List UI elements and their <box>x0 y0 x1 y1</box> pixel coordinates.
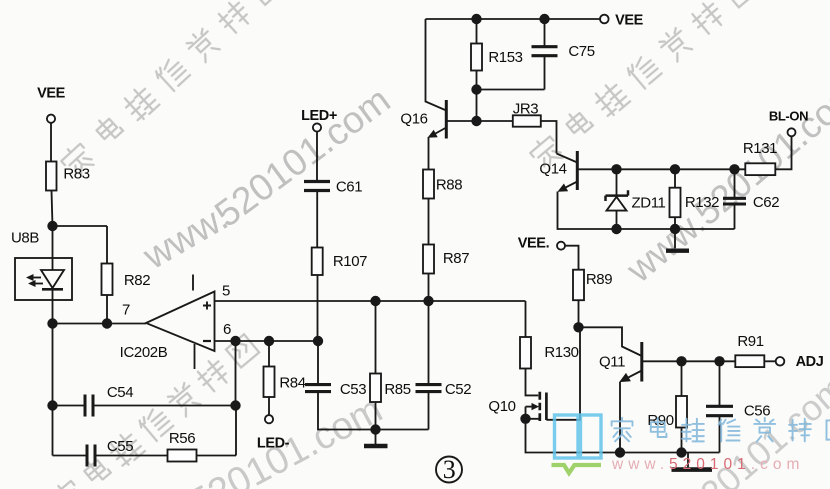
svg-text:Q14: Q14 <box>539 161 566 178</box>
svg-text:C62: C62 <box>753 194 779 211</box>
svg-text:C75: C75 <box>568 43 594 60</box>
svg-text:C55: C55 <box>107 438 133 455</box>
svg-text:R131: R131 <box>743 140 777 157</box>
svg-text:R91: R91 <box>737 333 763 350</box>
svg-text:BL-ON: BL-ON <box>769 109 808 124</box>
svg-text:R89: R89 <box>586 271 612 288</box>
svg-text:R83: R83 <box>63 166 89 183</box>
svg-text:VEE: VEE <box>615 13 644 29</box>
svg-text:R85: R85 <box>384 381 410 398</box>
svg-text:R56: R56 <box>169 430 195 447</box>
svg-text:C54: C54 <box>107 384 133 401</box>
svg-text:R84: R84 <box>279 375 305 392</box>
svg-text:6: 6 <box>223 321 231 338</box>
svg-text:VEE: VEE <box>37 86 66 102</box>
svg-text:IC202B: IC202B <box>120 344 168 361</box>
svg-text:ZD11: ZD11 <box>632 195 666 212</box>
svg-text:R82: R82 <box>124 272 150 289</box>
svg-text:R87: R87 <box>443 250 469 267</box>
svg-text:ADJ: ADJ <box>796 354 824 370</box>
svg-text:C53: C53 <box>340 381 366 398</box>
svg-text:LED+: LED+ <box>301 108 337 124</box>
svg-text:VEE.: VEE. <box>518 236 550 252</box>
svg-text:5: 5 <box>222 283 230 300</box>
svg-text:R107: R107 <box>333 253 367 270</box>
svg-text:LED-: LED- <box>257 436 290 452</box>
svg-text:www.520101.com: www.520101.com <box>618 71 830 291</box>
svg-text:C52: C52 <box>445 381 471 398</box>
svg-text:Q11: Q11 <box>599 354 625 371</box>
svg-text:C56: C56 <box>744 403 770 420</box>
svg-text:7: 7 <box>122 302 130 319</box>
svg-text:Q10: Q10 <box>488 398 515 415</box>
svg-text:JR3: JR3 <box>513 101 539 118</box>
svg-text:R88: R88 <box>436 177 462 194</box>
svg-text:U8B: U8B <box>11 230 39 247</box>
svg-text:www.520101.com: www.520101.com <box>611 456 804 473</box>
svg-text:R130: R130 <box>544 344 578 361</box>
svg-text:R153: R153 <box>488 49 522 66</box>
svg-text:3: 3 <box>443 455 456 484</box>
svg-text:C61: C61 <box>336 179 362 196</box>
svg-text:Q16: Q16 <box>400 111 427 128</box>
svg-text:R132: R132 <box>685 194 719 211</box>
svg-text:520101.com: 520101.com <box>207 78 398 235</box>
